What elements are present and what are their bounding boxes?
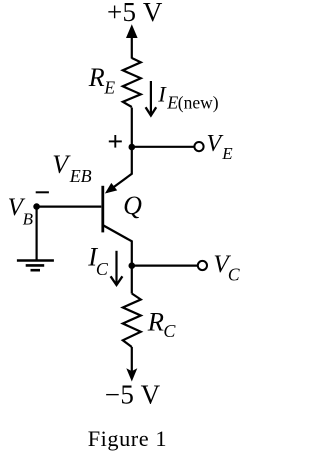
label VB (8, 194, 34, 229)
label VEB (52, 150, 91, 186)
svg-text:Figure 1: Figure 1 (88, 426, 167, 451)
transistor Q emitter arrowhead (105, 183, 117, 194)
wire (node C down to RC) (131, 266, 133, 294)
ground (17, 261, 54, 271)
svg-text:C: C (163, 321, 176, 341)
transistor Q collector (104, 226, 132, 267)
wire (node E to VE terminal) (132, 146, 194, 148)
svg-text:I: I (157, 82, 167, 107)
node C junction dot (129, 262, 136, 269)
label VC (213, 251, 240, 285)
svg-text:E: E (103, 77, 115, 97)
svg-text:E: E (166, 93, 178, 113)
current arrow IE(new) (146, 81, 157, 116)
svg-text:V: V (207, 131, 224, 157)
label RE (88, 63, 116, 98)
svg-text:(new): (new) (178, 93, 219, 113)
label IC (87, 242, 109, 280)
minus sign (VB polarity) (36, 191, 49, 193)
svg-text:E: E (221, 144, 233, 163)
svg-text:C: C (96, 259, 109, 279)
terminal VC (198, 261, 207, 270)
resistor RE (123, 58, 141, 107)
transistor Q base bar (101, 186, 104, 233)
node B junction dot (33, 203, 40, 210)
wire (node B down to ground) (35, 207, 37, 260)
svg-text:−5 V: −5 V (105, 380, 161, 410)
wire (base wire, node B to base bar) (37, 206, 102, 208)
svg-text:Q: Q (123, 191, 142, 220)
svg-text:+5 V: +5 V (107, 0, 163, 27)
wire (RE bottom to node E) (131, 108, 133, 148)
svg-text:R: R (147, 306, 164, 336)
svg-text:R: R (88, 63, 105, 92)
label IE(new) (157, 82, 218, 113)
plus sign (VE polarity) (109, 135, 122, 148)
label VE (207, 131, 234, 163)
node E junction dot (129, 144, 136, 151)
resistor RC (123, 294, 141, 348)
current arrow IC (111, 251, 123, 285)
wire (node E down to emitter bend) (107, 147, 132, 192)
svg-text:C: C (228, 265, 240, 285)
svg-text:EB: EB (69, 166, 92, 186)
wire (node C to VC terminal) (132, 265, 198, 267)
+5 V supply arrow (126, 24, 138, 58)
terminal VE (194, 142, 203, 151)
svg-text:B: B (23, 210, 34, 229)
label RC (147, 306, 177, 341)
-5 V supply arrow (126, 347, 137, 382)
